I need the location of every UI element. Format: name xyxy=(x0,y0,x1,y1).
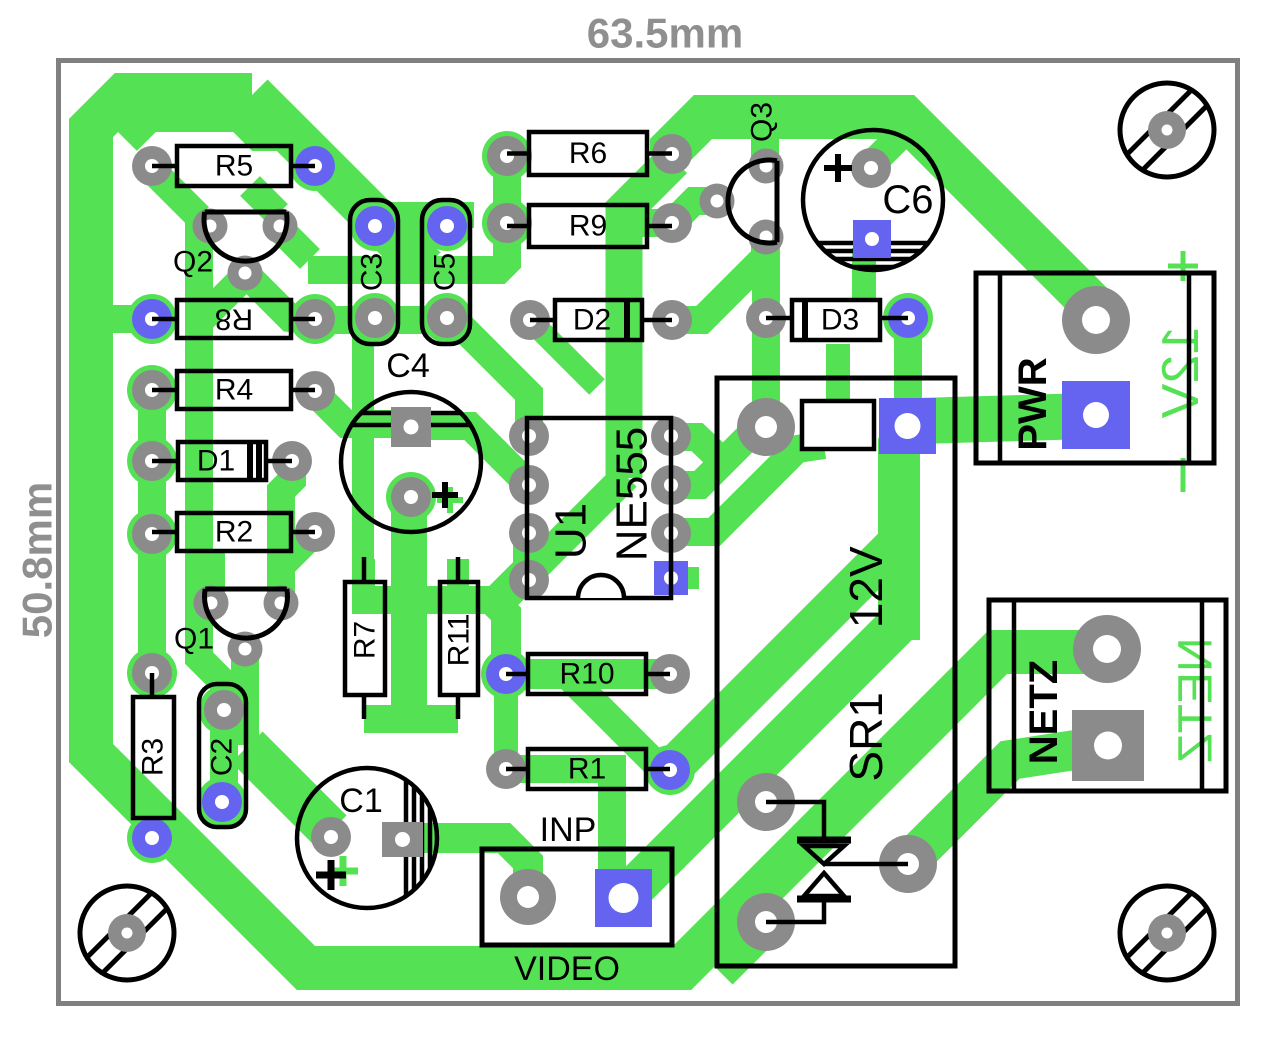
pad D1.2 xyxy=(272,441,312,481)
capacitor C1 xyxy=(297,768,437,908)
green plus near C1 xyxy=(328,856,358,886)
resistor R11 xyxy=(440,582,478,695)
wire loop corner inner to R5 right xyxy=(127,118,312,163)
svg-text:NE555: NE555 xyxy=(608,427,657,562)
diode D2 xyxy=(555,300,642,340)
svg-text:R7: R7 xyxy=(349,621,382,659)
pad U1.7 xyxy=(509,465,549,505)
svg-text:R4: R4 xyxy=(215,374,253,407)
resistor R10 xyxy=(528,654,646,694)
pad R4.1 xyxy=(132,370,172,410)
pad R5.2 xyxy=(295,146,335,186)
transistor Q3 xyxy=(775,161,780,243)
pad U1 pin1 square xyxy=(654,561,688,595)
svg-text:R1: R1 xyxy=(568,753,606,786)
connector VIDEO box xyxy=(482,849,672,945)
resistor R3 xyxy=(133,697,174,818)
capacitor C4 xyxy=(341,392,481,532)
wire U1 pin to SR1 pad A xyxy=(670,427,758,485)
pad C4 plus square xyxy=(391,407,431,447)
pad U1.5 xyxy=(509,560,549,600)
resistor R7 xyxy=(345,582,385,695)
wire R4 right to C4 plus xyxy=(315,393,393,424)
wire Q2 emitter to R8 right xyxy=(246,274,303,319)
pad D3.1 xyxy=(746,298,786,338)
capacitor C3 xyxy=(350,200,398,344)
svg-text:PWR: PWR xyxy=(1011,357,1055,450)
pad Q1.b xyxy=(264,586,299,621)
wire R2 right stub xyxy=(284,532,315,563)
pad R8.2 xyxy=(295,299,335,339)
pad D2.1 xyxy=(510,300,550,340)
transistor Q2 xyxy=(205,210,287,215)
ic U1 outline xyxy=(527,418,671,598)
capacitor C5 xyxy=(422,200,470,344)
pad U1.pin2 xyxy=(651,465,691,505)
pad VIDEO signal square xyxy=(595,869,652,927)
pad R6.2 xyxy=(652,134,692,174)
resistor R8 xyxy=(177,300,291,338)
pad C3.1 xyxy=(355,206,395,246)
pad R4.2 xyxy=(295,371,335,411)
wire ground loop (wide) xyxy=(91,95,1107,968)
wire SR1 plus vertical (wide) xyxy=(899,426,908,636)
svg-text:NETZ: NETZ xyxy=(1022,660,1066,764)
pad C3.2 xyxy=(355,298,395,338)
pad PWR plus square xyxy=(1062,381,1130,449)
svg-text:Q3: Q3 xyxy=(746,102,779,142)
svg-text:U1: U1 xyxy=(547,503,596,559)
svg-text:R11: R11 xyxy=(443,614,476,667)
resistor R5 xyxy=(177,146,291,186)
svg-text:INP: INP xyxy=(540,811,597,849)
wire C3C5 vertical link xyxy=(402,213,424,268)
wire R9 right to Q3 base xyxy=(636,201,714,223)
pad U1.8 xyxy=(509,416,549,456)
svg-text:Q1: Q1 xyxy=(174,623,214,656)
capacitor C2 xyxy=(199,684,246,827)
plus C4 xyxy=(432,482,458,508)
svg-text:NETZ: NETZ xyxy=(1170,637,1223,762)
pad R10.1 xyxy=(486,654,526,694)
pad C5.1 xyxy=(427,206,467,246)
svg-text:C3: C3 xyxy=(356,253,389,291)
pad U1.pin3 xyxy=(651,513,691,553)
wire R11 top stub xyxy=(447,559,469,592)
wire U1 pin8 stub xyxy=(671,437,720,459)
green minus PWR xyxy=(1181,458,1186,492)
wire Q2 collector stub xyxy=(280,229,310,259)
wire Q2 emitter link xyxy=(201,276,245,320)
svg-text:VIDEO: VIDEO xyxy=(514,950,620,988)
pads SR1 xyxy=(737,398,795,456)
wire R5 diagonal (wide) xyxy=(252,95,425,268)
pad C1.minus xyxy=(311,817,351,857)
wire Q1 left up xyxy=(197,552,225,600)
svg-text:R6: R6 xyxy=(569,137,607,170)
pad R10.2 xyxy=(650,654,690,694)
resistor R4 xyxy=(177,371,291,409)
green plus near C4 xyxy=(437,487,463,513)
wire D3 right down to SR1 plus xyxy=(894,322,922,422)
bridge SR1 diode rect xyxy=(802,401,874,449)
wire U1 pin to SR1 diode xyxy=(670,445,824,532)
wire band2 C3C5 lower xyxy=(308,150,507,270)
pad D2.2 xyxy=(652,300,692,340)
pad NETZ round xyxy=(1073,615,1141,683)
wire x199 vertical to C2 xyxy=(199,215,224,712)
pad Q2.e xyxy=(193,209,228,244)
pad C2.2 xyxy=(202,782,242,822)
wire C6 plus stub xyxy=(871,133,903,165)
pad C5.2 xyxy=(427,298,467,338)
wire SR1 plus to PWR plus (wide) xyxy=(918,416,1088,421)
svg-text:D1: D1 xyxy=(197,445,235,478)
pad D3.2 xyxy=(888,298,928,338)
pad NETZ square xyxy=(1072,710,1144,781)
pad D1.1 xyxy=(132,441,172,481)
wire left column vertical R4-D1-R2-R3 xyxy=(138,390,166,673)
transistor Q1 xyxy=(205,587,287,592)
plus C1 xyxy=(316,860,346,890)
pad U1.pin xyxy=(651,416,691,456)
pad C2.1 xyxy=(204,690,244,730)
diode D3 xyxy=(792,300,880,340)
wire C3C5 top band xyxy=(352,202,474,228)
wire D2 left stub xyxy=(531,321,597,387)
plus C6 xyxy=(824,154,852,182)
wire Q3 collector stub up xyxy=(751,120,779,165)
wire C6 minus down xyxy=(852,248,876,298)
wire R5 left to vertical xyxy=(152,170,199,217)
svg-text:R9: R9 xyxy=(569,210,607,243)
resistor R6 xyxy=(529,132,647,175)
pad VIDEO ground xyxy=(500,869,556,925)
pad R5.1 xyxy=(132,146,172,186)
svg-text:Q2: Q2 xyxy=(173,246,213,279)
svg-text:D2: D2 xyxy=(573,304,611,337)
svg-text:D3: D3 xyxy=(821,304,859,337)
wire C2 internal xyxy=(210,712,238,800)
connector PWR box xyxy=(976,273,1214,463)
wire R10 to R1 right diagonal xyxy=(566,674,662,770)
wire Q3 to D3 left to SR1 pad xyxy=(752,241,780,424)
wire R10 left from U1 via IC diagonal xyxy=(497,476,626,670)
mounting hole bottom right xyxy=(1120,886,1214,980)
pad Q1.e xyxy=(194,586,229,621)
wire D2 right to Q3 collector xyxy=(672,243,765,320)
svg-text:C6: C6 xyxy=(882,178,933,222)
wire R1 under band to VIDEO pin xyxy=(506,769,624,896)
pad C6.plus xyxy=(851,148,891,188)
svg-text:50.8mm: 50.8mm xyxy=(14,482,61,638)
pad PWR ground xyxy=(1062,286,1130,354)
svg-text:C5: C5 xyxy=(429,253,462,291)
svg-text:63.5mm: 63.5mm xyxy=(587,10,743,57)
bridge SR1 box xyxy=(717,378,955,966)
resistor R9 xyxy=(529,205,647,247)
wire x363 vertical xyxy=(352,322,374,598)
diode D1 xyxy=(178,442,266,480)
svg-text:C2: C2 xyxy=(206,738,239,776)
svg-text:R2: R2 xyxy=(215,516,253,549)
pad Q2.b xyxy=(263,209,298,244)
connector NETZ box xyxy=(989,600,1226,791)
svg-text:R3: R3 xyxy=(137,738,170,776)
pad Q2.c xyxy=(228,256,263,291)
pad R2.2 xyxy=(295,512,335,552)
wire band y600 to U1 pin3 xyxy=(352,537,527,600)
wire Q1 emitter down to C1 xyxy=(231,650,259,745)
mounting hole top right xyxy=(1120,83,1214,177)
svg-text:C4: C4 xyxy=(386,347,429,385)
wire R10 under band xyxy=(492,659,678,689)
pad Q1.c xyxy=(228,632,263,667)
wire C4 plus to U1 xyxy=(429,426,529,485)
wire VIDEO pin to 12V diagonal (wide) xyxy=(624,623,899,898)
pad R9.2 xyxy=(652,203,692,243)
wire Q1 right to D1 right xyxy=(281,463,292,600)
pad R3.2 xyxy=(132,818,172,858)
pad halos xyxy=(290,141,340,191)
pad R9.1 xyxy=(487,203,527,243)
pad R6.1 xyxy=(487,136,527,176)
wire R10L to R1L vertical xyxy=(494,676,518,766)
wire under R5 to Q2 collector xyxy=(250,186,278,214)
pad C4.minus xyxy=(391,477,431,517)
wire R7 top stub xyxy=(353,559,375,592)
wire R8 left stub xyxy=(110,305,150,333)
mounting hole bottom left xyxy=(80,886,174,980)
svg-text:SR1 12V: SR1 12V xyxy=(840,546,892,782)
wire C4 minus vertical (wide) xyxy=(391,500,427,717)
svg-text:C1: C1 xyxy=(339,782,382,820)
pad R3.1 xyxy=(132,653,172,693)
pad R2.1 xyxy=(132,514,172,554)
pad R1.2 xyxy=(650,750,690,790)
resistor R2 xyxy=(177,513,291,551)
wire 12V top band to PWR (wide) xyxy=(672,117,1096,308)
wire SR1 AC right to NETZ (wide) xyxy=(908,748,1088,862)
wire R1 right to SR1 plus (wide) xyxy=(670,541,899,770)
pad SR1 plus square xyxy=(879,398,936,454)
pad Q3.e xyxy=(749,149,784,184)
svg-text:R5: R5 xyxy=(215,150,253,183)
pad Q3.b xyxy=(700,184,735,219)
svg-text:R8: R8 xyxy=(215,303,253,336)
pad Q3.c xyxy=(749,220,784,255)
wire C3C5 bottom band to U1 pin xyxy=(315,320,529,436)
wire C1 band to VIDEO ground pad xyxy=(403,838,528,895)
wire NE555 power vertical xyxy=(624,160,674,478)
svg-text:R10: R10 xyxy=(559,658,614,691)
pad U1.6 xyxy=(509,513,549,553)
bridge SR1 wires and symbols xyxy=(766,802,824,837)
pad R8.1 xyxy=(132,299,172,339)
resistor R1 xyxy=(528,749,646,789)
wire U1 pin1 stub xyxy=(671,567,699,589)
pad R1.1 xyxy=(486,749,526,789)
wire R7 R11 bottom band xyxy=(364,705,458,733)
wire SR1 AC left to ground band (wide) xyxy=(717,920,766,969)
capacitor C6 xyxy=(803,130,943,270)
svg-text:12V: 12V xyxy=(1152,326,1210,419)
green plus PWR xyxy=(1168,251,1198,281)
